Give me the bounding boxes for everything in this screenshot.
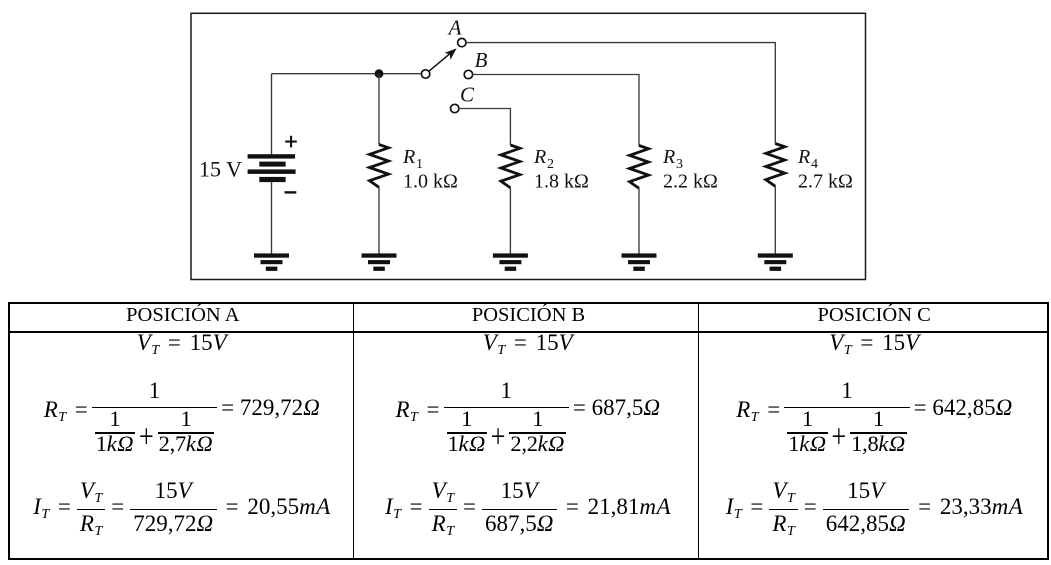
R2 value label 1.8 kOhm [534,171,589,193]
resistor R3 [630,146,649,189]
circuit schematic SVG [0,0,1051,300]
svg-text:1.0 kΩ: 1.0 kΩ [403,171,458,193]
R3 value label 2.2 kOhm [663,171,718,193]
wire: from A right and down to R4 [466,43,775,144]
wire: R3 bottom to ground [638,188,640,253]
resistor R1 [370,145,389,188]
wire: R1 branch top [378,74,380,145]
switch throw contact A [458,38,466,46]
wire: R1 bottom to ground [378,187,380,253]
svg-text:R: R [797,146,810,168]
R4 value label 2.7 kOhm [798,171,853,193]
node label C [460,83,475,107]
R3 reference label [662,146,683,172]
svg-text:R: R [533,146,546,168]
svg-text:R: R [402,146,415,168]
wire: R4 bottom to ground [774,186,776,253]
node junction dot [375,69,384,78]
resistor R4 [766,144,785,187]
ground symbol under R1 [362,253,397,271]
wire: battery top vertical [271,74,273,155]
node label B [475,48,488,72]
node label A [447,16,462,40]
svg-text:R: R [662,146,675,168]
wire: from C right and down to R2 [459,109,511,146]
battery value label 15 V [199,157,242,182]
R4 reference label [797,146,818,172]
ground symbol under R2 [493,253,528,271]
results table [8,302,1049,560]
wire: top horizontal bus from battery to switch pole [272,73,422,75]
switch arm with arrowhead toward A [429,48,457,71]
svg-text:2.2 kΩ: 2.2 kΩ [663,171,718,193]
R2 reference label [533,146,554,172]
switch throw contact C [451,104,459,112]
resistor R2 [501,145,520,188]
battery B1 15 V [248,154,296,182]
column B [355,333,701,558]
switch throw contact B [464,70,472,78]
svg-text:2.7 kΩ: 2.7 kΩ [798,171,853,193]
wire: battery bottom to ground [271,182,273,254]
ground symbol under R3 [622,253,657,271]
ground symbol under battery [254,253,289,271]
column C [702,333,1047,558]
svg-text:15 V: 15 V [199,157,242,182]
ground symbol under R4 [758,253,793,271]
battery + polarity label [285,136,297,148]
wire: R2 bottom to ground [509,188,511,254]
battery - polarity label [285,191,297,193]
wire: from B right and down to R3 [473,75,639,146]
R1 value label 1.0 kOhm [403,171,458,193]
svg-text:C: C [460,83,475,107]
R1 reference label [402,146,423,172]
column A [10,333,354,558]
svg-text:A: A [447,16,462,40]
svg-text:B: B [475,48,488,72]
enclosure border of schematic [191,13,866,279]
svg-text:1.8 kΩ: 1.8 kΩ [534,171,589,193]
switch pole contact [421,70,429,78]
